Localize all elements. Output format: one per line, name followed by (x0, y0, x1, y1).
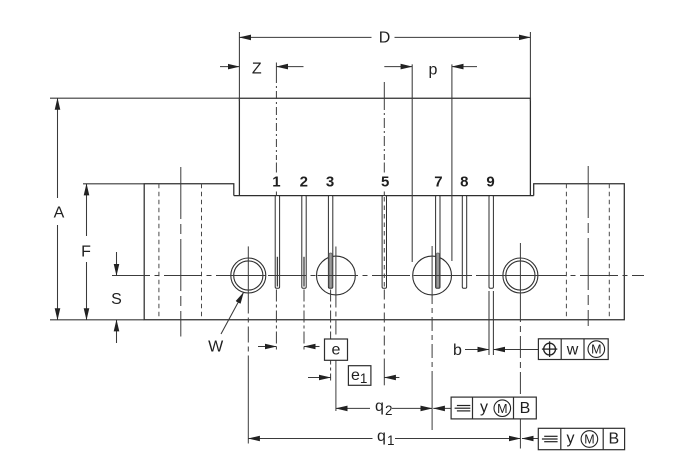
svg-text:M: M (497, 402, 507, 416)
pin 5 (382, 196, 386, 289)
p tangent line right (451, 64, 453, 261)
mounting hole right outer (503, 258, 538, 293)
pin1 top center line (275, 63, 277, 76)
feature frame symmetry y M B (q2) (451, 397, 536, 419)
dimension F (83, 183, 144, 185)
package axis center line (383, 82, 385, 100)
leader to frame q2 (433, 407, 451, 409)
center mark hole W (247, 246, 249, 297)
svg-text:D: D (379, 30, 391, 47)
svg-text:w: w (566, 342, 579, 359)
svg-text:B: B (520, 400, 531, 417)
hidden slot edge left-1 (158, 184, 160, 320)
svg-text:9: 9 (486, 174, 494, 191)
svg-text:1: 1 (272, 174, 280, 191)
dimension S (116, 252, 118, 276)
svg-text:2: 2 (385, 403, 393, 418)
svg-text:e: e (332, 341, 341, 358)
dimension q1 (248, 438, 372, 440)
svg-text:3: 3 (326, 174, 334, 191)
center mark hole inner-right (431, 246, 433, 290)
dimension D (238, 32, 240, 101)
pin 9 (489, 196, 493, 289)
svg-text:B: B (608, 430, 619, 447)
svg-text:p: p (429, 62, 438, 79)
pin 3 (328, 196, 332, 289)
horizontal center line (112, 275, 644, 277)
body bottom line (234, 195, 534, 197)
slot center line right (587, 166, 589, 326)
svg-text:7: 7 (434, 174, 442, 191)
svg-text:e: e (351, 367, 360, 384)
svg-text:1: 1 (360, 371, 368, 386)
hidden slot edge left-2 (201, 184, 203, 320)
pin 2 (302, 196, 306, 289)
p tangent line left (411, 64, 413, 262)
pin 8 (462, 196, 466, 289)
svg-text:1: 1 (387, 433, 395, 448)
dimension q2 (336, 407, 370, 409)
pin 7 (436, 196, 440, 289)
svg-text:q: q (375, 398, 384, 415)
hidden slot edge right-1 (565, 184, 567, 320)
hidden slot edge right-2 (608, 184, 610, 320)
svg-text:y: y (567, 430, 575, 447)
svg-text:F: F (81, 243, 91, 260)
svg-text:2: 2 (300, 174, 308, 191)
svg-text:M: M (584, 433, 594, 447)
mounting hole W left outer (231, 258, 266, 293)
svg-text:M: M (591, 343, 601, 357)
svg-text:S: S (111, 291, 122, 308)
svg-text:A: A (54, 204, 65, 221)
svg-text:y: y (480, 399, 488, 416)
feature frame symmetry y M B (q1) (538, 428, 624, 449)
svg-text:q: q (377, 428, 386, 445)
svg-text:b: b (453, 342, 462, 359)
svg-text:W: W (208, 339, 224, 356)
pin 1 (275, 196, 279, 289)
center mark hole right (519, 243, 521, 300)
b extension lines (488, 291, 490, 355)
svg-text:Z: Z (252, 61, 262, 78)
center line solid through holes (232, 275, 266, 277)
body outline (239, 98, 530, 195)
center mark hole inner-left (335, 247, 337, 294)
feature frame position w M (538, 339, 608, 360)
dimension e1 (308, 377, 331, 379)
dimension e (330, 290, 332, 381)
slot center line left (180, 167, 182, 337)
mounting hole inner-right (413, 256, 452, 295)
flange outline (144, 184, 624, 320)
mounting hole inner-left (317, 256, 356, 295)
svg-text:8: 8 (460, 174, 468, 191)
leader to frame q1 (522, 438, 538, 440)
dimension A (50, 97, 239, 99)
svg-text:5: 5 (381, 174, 389, 191)
